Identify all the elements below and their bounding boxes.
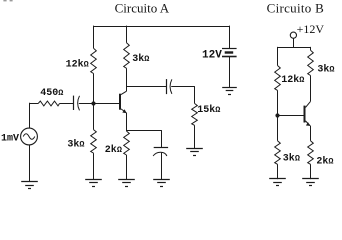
ground B right	[302, 178, 319, 180]
battery 12V plates	[222, 48, 237, 50]
wire terminal to rail B	[293, 38, 295, 48]
ground load resistor	[186, 148, 203, 150]
terminal +12V circle	[290, 32, 296, 38]
svg-text:15kΩ: 15kΩ	[197, 104, 220, 116]
wire emitter down to tee	[126, 113, 128, 131]
source sine wave symbol	[23, 134, 35, 140]
svg-text:12kΩ: 12kΩ	[66, 58, 89, 70]
wire emitter tee to bypass cap	[126, 130, 162, 132]
wire source up	[29, 103, 31, 128]
svg-text:Circuito A: Circuito A	[115, 0, 170, 15]
wire battery to ground	[229, 57, 231, 87]
resistor 12k circuit B	[275, 66, 281, 91]
wire collector B down	[310, 76, 312, 102]
svg-text:1mV: 1mV	[1, 133, 19, 144]
wire 3k B to ground	[277, 164, 279, 179]
wire base A	[95, 103, 119, 105]
wire 2k to ground	[126, 155, 128, 180]
ground battery	[222, 87, 237, 89]
wire left branch upper segment	[93, 26, 95, 49]
node base junction dot A	[91, 101, 95, 105]
wire B left branch upper	[277, 47, 279, 66]
svg-text:3kΩ: 3kΩ	[132, 53, 149, 65]
wire 12k B to base node	[277, 90, 279, 140]
svg-text:2kΩ: 2kΩ	[316, 155, 333, 167]
resistor 3k circuit B lower	[275, 141, 281, 165]
transistor Q2 emitter lead with arrow	[306, 121, 311, 126]
stray text fragment top-left	[3, 0, 6, 1]
capacitor input coupling left plate	[73, 96, 75, 110]
wire top supply rail circuit A	[93, 26, 230, 28]
wire load branch down	[194, 87, 196, 104]
wire down to bypass capacitor	[161, 131, 163, 148]
wire 15k to ground	[194, 125, 196, 149]
wire 450 to input cap	[60, 103, 74, 105]
capacitor bypass curved plate	[153, 152, 167, 156]
transistor Q2 base bar	[304, 106, 306, 123]
svg-text:12kΩ: 12kΩ	[281, 74, 304, 86]
resistor 12k bias upper	[91, 48, 97, 73]
wire collector output tee	[126, 86, 167, 88]
node base junction dot B	[275, 113, 279, 117]
wire base B	[279, 115, 303, 117]
wire input cap to base node	[79, 103, 94, 105]
resistor 3k bias lower	[91, 130, 97, 154]
transistor Q1 collector lead	[121, 91, 127, 94]
wire 3k to ground	[93, 153, 95, 179]
transistor Q2 collector lead	[306, 101, 311, 107]
svg-text:+12V: +12V	[297, 22, 325, 36]
ground bias divider	[85, 179, 102, 181]
ground bypass capacitor	[153, 179, 170, 181]
wire rail to battery	[229, 26, 231, 49]
resistor 3k collector load	[124, 43, 130, 69]
wire 12k to base node	[93, 74, 95, 130]
resistor 2k emitter circuit B	[308, 141, 314, 165]
svg-text:Circuito B: Circuito B	[267, 0, 325, 15]
svg-text:450Ω: 450Ω	[40, 88, 63, 99]
svg-text:12V: 12V	[202, 49, 222, 61]
wire bypass cap to ground	[161, 153, 163, 180]
wire B right branch upper	[310, 47, 312, 50]
transistor Q1 base bar	[119, 94, 121, 110]
resistor 450 series	[38, 101, 59, 106]
svg-text:3kΩ: 3kΩ	[283, 152, 300, 164]
wire collector down to transistor	[126, 68, 128, 91]
svg-text:3kΩ: 3kΩ	[67, 138, 84, 150]
capacitor output coupling curved plate	[170, 79, 172, 94]
ground source	[21, 181, 38, 183]
transistor Q1 emitter lead with arrow	[121, 109, 127, 113]
capacitor output coupling left plate	[166, 79, 168, 94]
capacitor input coupling curved plate	[78, 96, 80, 111]
source 1mV AC circle	[21, 128, 38, 145]
resistor 3k collector circuit B	[308, 50, 314, 75]
capacitor bypass top plate	[154, 147, 168, 149]
wire source top to 450	[29, 103, 38, 105]
wire collector branch upper	[126, 26, 128, 43]
ground B left	[269, 178, 286, 180]
wire emitter B down	[310, 126, 312, 141]
resistor 15k load	[192, 103, 198, 125]
svg-text:3kΩ: 3kΩ	[317, 64, 334, 76]
wire output cap to load	[171, 86, 195, 88]
ground emitter resistor	[118, 179, 135, 181]
wire 2k B to ground	[310, 164, 312, 179]
svg-text:2kΩ: 2kΩ	[105, 144, 122, 156]
wire source down	[29, 145, 31, 182]
wire supply rail B	[277, 47, 311, 49]
resistor 2k emitter	[124, 131, 130, 155]
